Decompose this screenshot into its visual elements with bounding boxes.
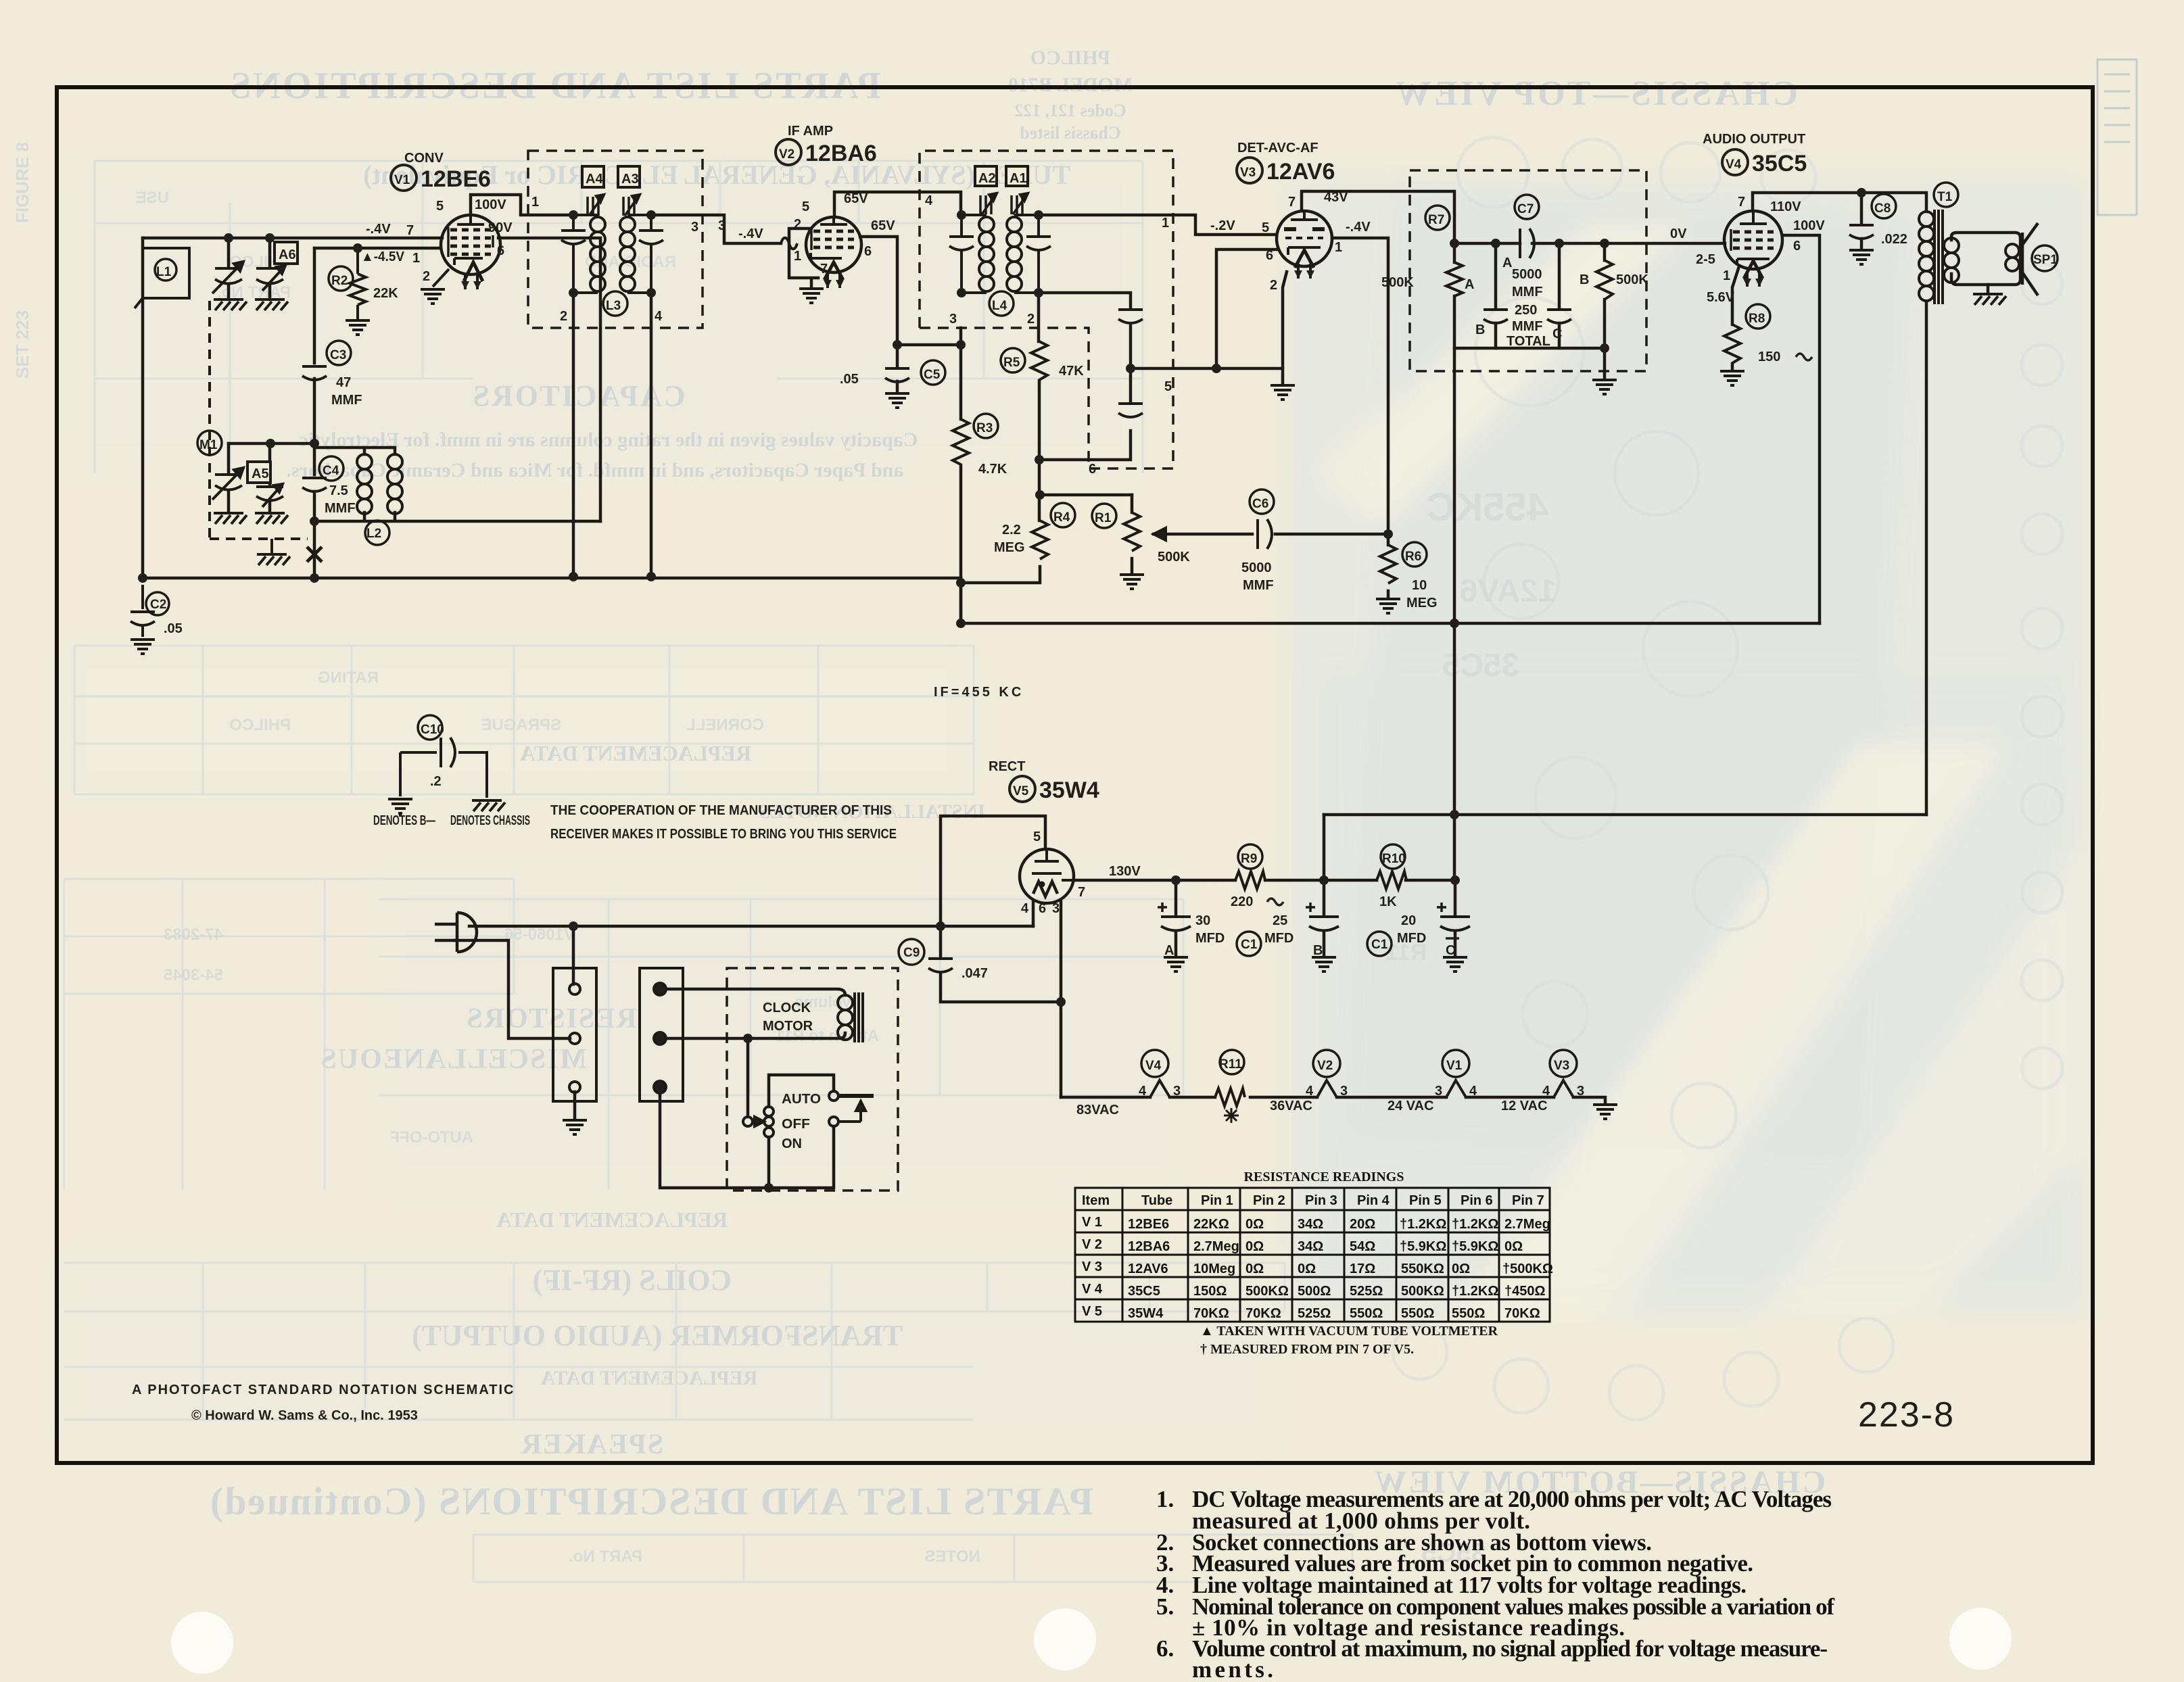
- node osc row right: [310, 439, 319, 448]
- svg-text:V1: V1: [1446, 1059, 1463, 1073]
- converter tube V1 12BE6: [433, 215, 500, 289]
- L3 secondary winding: [620, 215, 651, 293]
- svg-text:1: 1: [412, 251, 420, 266]
- svg-text:MMF: MMF: [1243, 578, 1274, 593]
- svg-text:DENOTES B—: DENOTES B—: [373, 813, 435, 828]
- svg-text:R3: R3: [976, 421, 993, 435]
- svg-text:12BA6: 12BA6: [1128, 1239, 1170, 1254]
- svg-text:70KΩ: 70KΩ: [1504, 1306, 1540, 1321]
- wire R5 bottom to diode cap bottom: [1039, 381, 1131, 460]
- svg-text:†1.2KΩ: †1.2KΩ: [1400, 1217, 1446, 1232]
- svg-text:A: A: [1502, 256, 1512, 270]
- IF transformer L4 dashed box with detector extension: [920, 151, 1173, 468]
- wire bus lower to V4 screen drop: [961, 622, 1820, 625]
- svg-text:A: A: [1465, 277, 1474, 292]
- svg-text:V1060-56: V1060-56: [504, 926, 575, 944]
- node osc row left: [266, 439, 275, 448]
- svg-text:10Meg: 10Meg: [1193, 1261, 1235, 1276]
- punch hole middle: [1034, 1608, 1096, 1671]
- svg-text:RESISTANCE READINGS: RESISTANCE READINGS: [1244, 1170, 1404, 1184]
- wire speaker ground stub: [1987, 285, 1990, 293]
- svg-text:C7: C7: [1517, 202, 1534, 216]
- svg-text:Pin 1: Pin 1: [1201, 1193, 1233, 1208]
- node switch bottom bus: [764, 1183, 774, 1193]
- svg-text:34Ω: 34Ω: [1298, 1217, 1323, 1232]
- node L3 pin1: [569, 210, 578, 220]
- capacitor C2 .05: [130, 585, 183, 637]
- schematic border frame: [57, 87, 2093, 1463]
- wire detector bus 5: [1131, 367, 1283, 370]
- svg-text:MFD: MFD: [1397, 931, 1426, 946]
- node bus at L3 pin4: [646, 572, 656, 581]
- wire V3 pin2 cathode riser and ground stub: [1283, 272, 1287, 384]
- output transformer T1: [1919, 183, 1959, 304]
- B minus ground under C5: [885, 393, 909, 408]
- svg-text:0Ω: 0Ω: [1245, 1261, 1264, 1276]
- svg-text:100V: 100V: [1793, 218, 1825, 233]
- svg-text:2: 2: [1027, 312, 1035, 327]
- wire plug lower prong to interlock: [454, 940, 570, 1038]
- svg-text:SP1: SP1: [2033, 253, 2058, 267]
- svg-text:Chassis listed: Chassis listed: [1020, 123, 1121, 143]
- trimmer A1: [1006, 166, 1028, 214]
- svg-text:A PHOTOFACT STANDARD NOTATION: A PHOTOFACT STANDARD NOTATION SCHEMATIC: [132, 1383, 515, 1397]
- node R7 tap: [1450, 239, 1459, 248]
- svg-text:AUTO-OFF: AUTO-OFF: [389, 1128, 473, 1147]
- svg-text:5: 5: [1164, 379, 1172, 394]
- wire trimmer A6 stubs: [268, 238, 272, 299]
- wire L2 tops and bottom: [314, 448, 600, 521]
- electrolytic C1 section A 30MFD: [1158, 903, 1191, 931]
- svg-text:.2: .2: [430, 774, 442, 789]
- svg-text:MMF: MMF: [331, 393, 362, 408]
- node B 500K tap: [1600, 239, 1609, 248]
- svg-text:Pin 4: Pin 4: [1357, 1193, 1390, 1208]
- svg-text:2: 2: [423, 269, 430, 284]
- svg-text:MFD: MFD: [1195, 931, 1225, 946]
- svg-text:† MEASURED FROM PIN 7 OF V5.: † MEASURED FROM PIN 7 OF V5.: [1200, 1342, 1414, 1357]
- switch auto off on: [743, 1091, 874, 1137]
- svg-text:DENOTES CHASSIS: DENOTES CHASSIS: [450, 813, 530, 828]
- svg-text:7: 7: [406, 223, 414, 238]
- svg-text:AUDIO OUTPUT: AUDIO OUTPUT: [1703, 132, 1805, 147]
- B minus ground at heater string end: [1593, 1105, 1617, 1119]
- coupling capacitor C6 5000MMF: [1250, 489, 1274, 549]
- svg-text:70KΩ: 70KΩ: [1245, 1306, 1281, 1321]
- wire C5 stub: [896, 345, 899, 392]
- svg-text:R9: R9: [1241, 852, 1257, 866]
- chassis ground under gang 2: [214, 513, 247, 524]
- wire L3 pin3 to V2 grid: [651, 215, 781, 243]
- svg-text:Codes 121, 122: Codes 121, 122: [1014, 101, 1126, 120]
- svg-text:4.7K: 4.7K: [978, 462, 1007, 477]
- svg-text:Tube: Tube: [1141, 1193, 1172, 1208]
- cathode resistor R8 150: [1724, 304, 1770, 363]
- wire 500K B resistor stubs: [1603, 243, 1607, 348]
- antenna loop L1: [135, 248, 189, 308]
- heater dropping resistor R11: [1215, 1050, 1245, 1123]
- electrolytic C1 section B 25MFD: [1237, 903, 1339, 956]
- svg-text:500K: 500K: [1381, 275, 1414, 290]
- L4 primary capacitor: [949, 215, 974, 293]
- svg-text:C2: C2: [150, 598, 166, 612]
- svg-text:L1: L1: [156, 265, 172, 279]
- wire V2 pin5 riser and top feed into L4: [834, 192, 961, 217]
- svg-text:0Ω: 0Ω: [1245, 1239, 1264, 1254]
- svg-text:54Ω: 54Ω: [1350, 1239, 1375, 1254]
- IF transformer L3 dashed box: [528, 151, 703, 328]
- clock motor dashed box: [727, 968, 898, 1191]
- svg-text:C8: C8: [1874, 201, 1891, 216]
- wire gang2 stubs: [227, 443, 231, 512]
- node R5 R4 junction: [1035, 455, 1044, 464]
- punch hole right: [1949, 1608, 2012, 1670]
- node L3 pin2 bottom: [569, 288, 578, 297]
- wire V5 pin5 loop to AC line: [941, 816, 1045, 926]
- svg-text:6: 6: [1793, 239, 1801, 254]
- L3 secondary capacitor: [603, 215, 663, 316]
- M1 dashed gang link: [210, 301, 308, 539]
- svg-text:7.5: 7.5: [329, 483, 348, 498]
- svg-text:†5.9KΩ: †5.9KΩ: [1452, 1239, 1498, 1254]
- wire R1 wiper line from C6: [1154, 533, 1252, 536]
- resistor R3 4.7K: [953, 414, 998, 464]
- wire V3 pin6 riser: [1216, 249, 1277, 368]
- svg-text:70KΩ: 70KΩ: [1193, 1306, 1229, 1321]
- B minus ground under V2 pins 2 7: [799, 289, 824, 303]
- svg-text:0Ω: 0Ω: [1452, 1261, 1470, 1276]
- L4 secondary winding: [1007, 215, 1039, 293]
- svg-text:PHILCO: PHILCO: [229, 716, 291, 734]
- B minus ground under C2: [130, 640, 155, 654]
- rectifier tube V5 35W4: [1020, 849, 1074, 903]
- svg-text:100V: 100V: [475, 197, 506, 212]
- svg-text:220: 220: [1231, 894, 1253, 909]
- svg-text:35W4: 35W4: [1039, 777, 1099, 803]
- tuning gang section 1: [212, 262, 243, 293]
- svg-text:M1: M1: [199, 438, 218, 452]
- svg-text:R2: R2: [331, 274, 348, 288]
- svg-text:34Ω: 34Ω: [1298, 1239, 1323, 1254]
- svg-text:REPLACEMENT DATA: REPLACEMENT DATA: [496, 1207, 728, 1232]
- L4 secondary capacitor: [989, 215, 1051, 316]
- wire V1 plate pin5 to L3 pin1: [471, 195, 571, 215]
- svg-text:REPLACEMENT DATA: REPLACEMENT DATA: [540, 1367, 757, 1389]
- svg-text:MOTOR: MOTOR: [763, 1019, 813, 1034]
- wire R8 bottom to ground: [1731, 364, 1734, 370]
- svg-text:2.7Meg: 2.7Meg: [1504, 1217, 1550, 1232]
- resistor R6 10MEG: [1380, 542, 1427, 583]
- svg-text:THE COOPERATION OF THE MANUFAC: THE COOPERATION OF THE MANUFACTURER OF T…: [550, 803, 892, 818]
- svg-text:USE: USE: [136, 189, 169, 207]
- svg-text:3: 3: [1340, 1084, 1348, 1099]
- svg-text:500K: 500K: [1616, 272, 1648, 287]
- svg-text:CAPACITORS: CAPACITORS: [471, 379, 686, 412]
- node diode cap detector bus: [1126, 364, 1135, 373]
- wire C5 line to R3 vertical: [897, 343, 961, 347]
- svg-text:Pin 6: Pin 6: [1461, 1193, 1493, 1208]
- wire V2 pin6 to C5 junction: [860, 237, 897, 345]
- svg-text:MFD: MFD: [1264, 931, 1293, 946]
- svg-text:T1: T1: [1937, 190, 1953, 204]
- coupling capacitor C7 A 5000MMF: [1515, 195, 1539, 258]
- svg-text:PART No.: PART No.: [569, 1547, 642, 1566]
- wire C7 B section stub: [1494, 243, 1498, 348]
- svg-text:MEG: MEG: [1406, 596, 1438, 610]
- svg-text:© Howard W. Sams & Co., Inc. 1: © Howard W. Sams & Co., Inc. 1953: [191, 1408, 418, 1423]
- svg-text:A3: A3: [621, 172, 639, 187]
- wire switch auto link: [769, 1075, 834, 1107]
- tuning gang section 2: [212, 468, 243, 500]
- faint bleed table text rows: [136, 189, 980, 1566]
- wire R1 pot top and bottom: [1131, 495, 1134, 573]
- svg-text:MMF: MMF: [1512, 319, 1543, 334]
- wire B node riser: [1323, 815, 1326, 880]
- svg-text:-.2V: -.2V: [1210, 218, 1235, 233]
- resistor B 500K: [1596, 260, 1613, 299]
- wire V4 pin1 cathode to R8: [1732, 266, 1739, 325]
- trimmer A2: [975, 166, 997, 214]
- svg-text:12BE6: 12BE6: [1128, 1217, 1169, 1232]
- trimmer A4: [582, 166, 604, 216]
- B minus ground under V3 pin2: [1271, 385, 1295, 400]
- svg-text:6: 6: [1089, 462, 1096, 477]
- svg-text:†1.2KΩ: †1.2KΩ: [1452, 1284, 1498, 1299]
- B minus ground under R8: [1720, 371, 1744, 385]
- svg-text:ments.: ments.: [1192, 1656, 1273, 1682]
- wire V1 pin6 screen drop to L2 row: [498, 238, 600, 521]
- svg-text:C: C: [1552, 327, 1562, 341]
- chassis ground under A5: [255, 513, 288, 524]
- B minus ground under R6: [1376, 599, 1400, 613]
- legend capacitor C10: [400, 715, 488, 798]
- B minus ground legend: [388, 799, 412, 817]
- svg-text:RATING: RATING: [318, 669, 379, 687]
- svg-text:4: 4: [1542, 1084, 1550, 1099]
- wire switch bottom bus: [660, 1092, 834, 1188]
- svg-text:2: 2: [560, 309, 567, 324]
- wire V4 plate pin7 riser to T1: [1753, 193, 1926, 212]
- svg-text:V 3: V 3: [1082, 1259, 1102, 1274]
- svg-text:10: 10: [1412, 578, 1427, 593]
- svg-text:3: 3: [1435, 1084, 1442, 1099]
- svg-text:C10: C10: [421, 723, 444, 737]
- svg-text:3: 3: [718, 218, 726, 233]
- svg-text:4: 4: [1306, 1084, 1314, 1099]
- volume control dashed box: [1410, 170, 1646, 371]
- svg-text:▲-4.5V: ▲-4.5V: [361, 249, 405, 264]
- svg-text:RECT: RECT: [989, 759, 1025, 774]
- svg-text:RESISTORS: RESISTORS: [465, 1003, 636, 1034]
- svg-text:FIGURE 8: FIGURE 8: [12, 142, 32, 223]
- svg-text:V4: V4: [1726, 158, 1742, 172]
- svg-text:B: B: [1475, 322, 1485, 337]
- heater jog V1: [1442, 1050, 1469, 1097]
- svg-text:Pin 5: Pin 5: [1409, 1193, 1442, 1208]
- svg-text:35W4: 35W4: [1128, 1306, 1164, 1321]
- svg-text:and Paper Capacitors, and in m: and Paper Capacitors, and in mmfd. for M…: [286, 459, 903, 481]
- svg-text:223-8: 223-8: [1858, 1395, 1955, 1435]
- node volume line at bus: [1450, 619, 1459, 628]
- capacitor C3 47MMF: [302, 341, 351, 380]
- punch hole left: [171, 1612, 233, 1674]
- svg-text:R5: R5: [1003, 356, 1020, 370]
- svg-text:1: 1: [794, 249, 801, 264]
- interlock female connector: [640, 968, 683, 1101]
- B minus ground under box bus: [1592, 380, 1617, 394]
- node C7 B tap: [1491, 239, 1500, 248]
- svg-text:2.7Meg: 2.7Meg: [1193, 1239, 1239, 1254]
- svg-text:IF AMP: IF AMP: [788, 124, 833, 139]
- wire B node feed line to T1: [1324, 813, 1926, 817]
- X chassis tie mark: [307, 547, 322, 562]
- node L3 pin3: [646, 210, 656, 220]
- node B filter: [1319, 875, 1329, 885]
- wire clock coil bottom to switch: [665, 1033, 845, 1117]
- node gang1 on antenna line: [224, 233, 233, 243]
- svg-text:Pin 3: Pin 3: [1305, 1193, 1337, 1208]
- svg-text:500KΩ: 500KΩ: [1401, 1284, 1444, 1299]
- svg-text:A6: A6: [279, 247, 296, 262]
- wire R4 from R5 bottom junction: [1038, 460, 1041, 521]
- IF amplifier tube V2 12BA6: [781, 217, 861, 288]
- node pin6 riser on detector bus: [1212, 364, 1221, 373]
- capacitor C7 B 250MMF: [1483, 310, 1508, 323]
- svg-text:A1: A1: [1010, 171, 1027, 186]
- node A6 on antenna line: [265, 233, 275, 243]
- faint tube circles of chassis top view bleed: [1393, 137, 2062, 1420]
- node clock line: [743, 1034, 753, 1043]
- svg-text:1: 1: [531, 195, 539, 210]
- node box bus ground tap: [1600, 343, 1609, 353]
- svg-text:C5: C5: [924, 368, 941, 382]
- small tag box at right edge: [2097, 59, 2137, 215]
- node L4 pin4 top: [957, 210, 966, 220]
- wire vertical through C3 C4 down to bus: [313, 248, 316, 578]
- svg-text:ON: ON: [782, 1136, 802, 1151]
- heater jog V4: [1141, 1050, 1170, 1097]
- wire C7 C section stub: [1558, 243, 1561, 348]
- svg-text:12 VAC: 12 VAC: [1501, 1099, 1548, 1113]
- wire V2 pins 2-7 tie and ground stub: [789, 229, 818, 287]
- B minus ground under interlock: [563, 1120, 587, 1134]
- svg-text:V2: V2: [1317, 1059, 1333, 1073]
- wire heater bus 83VAC: [1061, 1097, 1605, 1103]
- wire B+ bus upper: [143, 577, 961, 580]
- svg-text:2: 2: [794, 217, 801, 232]
- svg-text:7: 7: [1738, 195, 1745, 210]
- filter resistor R9 220: [1235, 844, 1265, 889]
- wire gang1 stubs: [227, 238, 231, 299]
- svg-text:1.: 1.: [1156, 1486, 1174, 1512]
- chassis ground under speaker frame: [1973, 294, 2006, 305]
- svg-text:550Ω: 550Ω: [1401, 1306, 1434, 1321]
- svg-text:PARTS LIST AND DESCRIPTIONS (C: PARTS LIST AND DESCRIPTIONS (Continued): [209, 1479, 1093, 1523]
- wire R6 stub: [1387, 534, 1390, 598]
- wire V5 pin3 riser down to heater string: [1060, 902, 1063, 1097]
- svg-text:PHILCO: PHILCO: [1030, 47, 1110, 69]
- svg-text:6: 6: [1039, 901, 1046, 916]
- svg-text:5: 5: [802, 199, 809, 214]
- svg-text:†1.2KΩ: †1.2KΩ: [1452, 1217, 1498, 1232]
- capacitor C8 .022: [1849, 194, 1896, 239]
- svg-text:3: 3: [949, 312, 957, 327]
- node C9 to pin3 riser: [1056, 997, 1066, 1007]
- svg-text:36VAC: 36VAC: [1270, 1099, 1312, 1113]
- svg-text:6: 6: [1266, 248, 1273, 263]
- svg-text:CHASSIS—TOP VIEW: CHASSIS—TOP VIEW: [1394, 74, 1798, 113]
- svg-text:25: 25: [1273, 913, 1287, 928]
- svg-text:V5: V5: [1013, 784, 1029, 798]
- B minus ground under C1 B: [1312, 957, 1336, 971]
- svg-text:V 2: V 2: [1082, 1237, 1102, 1252]
- wire switch on position drop to bottom bus: [767, 1137, 771, 1188]
- svg-text:30: 30: [1195, 913, 1210, 928]
- node C8 on plate line: [1857, 188, 1866, 197]
- svg-text:550Ω: 550Ω: [1452, 1306, 1485, 1321]
- svg-text:.022: .022: [1881, 232, 1907, 247]
- svg-text:R8: R8: [1749, 312, 1765, 326]
- svg-text:†450Ω: †450Ω: [1504, 1284, 1546, 1299]
- svg-text:550Ω: 550Ω: [1350, 1306, 1383, 1321]
- L3 primary winding: [573, 215, 605, 293]
- wire box bus ground stub: [1603, 348, 1607, 379]
- svg-text:R6: R6: [1405, 550, 1421, 564]
- svg-text:L2: L2: [366, 527, 381, 541]
- node R3 vertical at bus step: [956, 578, 966, 587]
- svg-text:20: 20: [1401, 913, 1416, 928]
- svg-text:12AV6: 12AV6: [1459, 573, 1556, 609]
- resistor R5 47K: [1001, 341, 1047, 380]
- wire V3 plate pin7 riser and feed to R7: [1302, 191, 1454, 262]
- svg-text:110V: 110V: [1770, 199, 1801, 214]
- wire C8 stub: [1860, 193, 1863, 247]
- node L4 pin2 bottom: [1034, 288, 1043, 297]
- svg-text:4: 4: [1139, 1084, 1147, 1099]
- node C filter: [1450, 875, 1460, 885]
- svg-text:TRANSFORMER (AUDIO OUTPUT): TRANSFORMER (AUDIO OUTPUT): [412, 1319, 903, 1352]
- svg-text:A2: A2: [978, 171, 996, 186]
- wire V4 pin6 screen drop: [1782, 235, 1820, 623]
- svg-text:5: 5: [436, 199, 444, 214]
- wire L4 pin2 bottom to diode caps column: [1039, 293, 1131, 308]
- svg-text:43V: 43V: [1324, 190, 1348, 205]
- svg-text:V1: V1: [394, 173, 410, 187]
- svg-text:54-3045: 54-3045: [164, 966, 223, 984]
- svg-text:MMF: MMF: [325, 501, 356, 516]
- wire AC line from plug to V5 pin4: [469, 925, 1033, 928]
- svg-text:500K: 500K: [1158, 550, 1190, 564]
- svg-text:C3: C3: [330, 348, 346, 362]
- svg-text:5000: 5000: [1241, 560, 1272, 575]
- wire left vertical from antenna line down to B+ bus: [141, 238, 145, 578]
- electrolytic C1 section C 20MFD: [1367, 903, 1470, 956]
- wire R4 R1 top link: [1040, 494, 1132, 497]
- wire audio coupling line 0V to V4 grid: [1454, 242, 1725, 245]
- svg-text:C1: C1: [1371, 938, 1388, 952]
- detector tube V3 12AV6: [1277, 211, 1332, 279]
- svg-text:2: 2: [1270, 278, 1277, 293]
- svg-text:7: 7: [1288, 195, 1296, 210]
- node 130V at C1 A: [1171, 875, 1181, 885]
- svg-text:L3: L3: [606, 299, 621, 313]
- node AC line at interlock: [569, 921, 578, 931]
- node bus at L3 pin2: [569, 572, 578, 581]
- L3 primary capacitor: [561, 215, 586, 293]
- svg-text:12BE6: 12BE6: [421, 166, 491, 192]
- oscillator coil L2: [357, 454, 402, 545]
- heater jog V3: [1550, 1050, 1577, 1097]
